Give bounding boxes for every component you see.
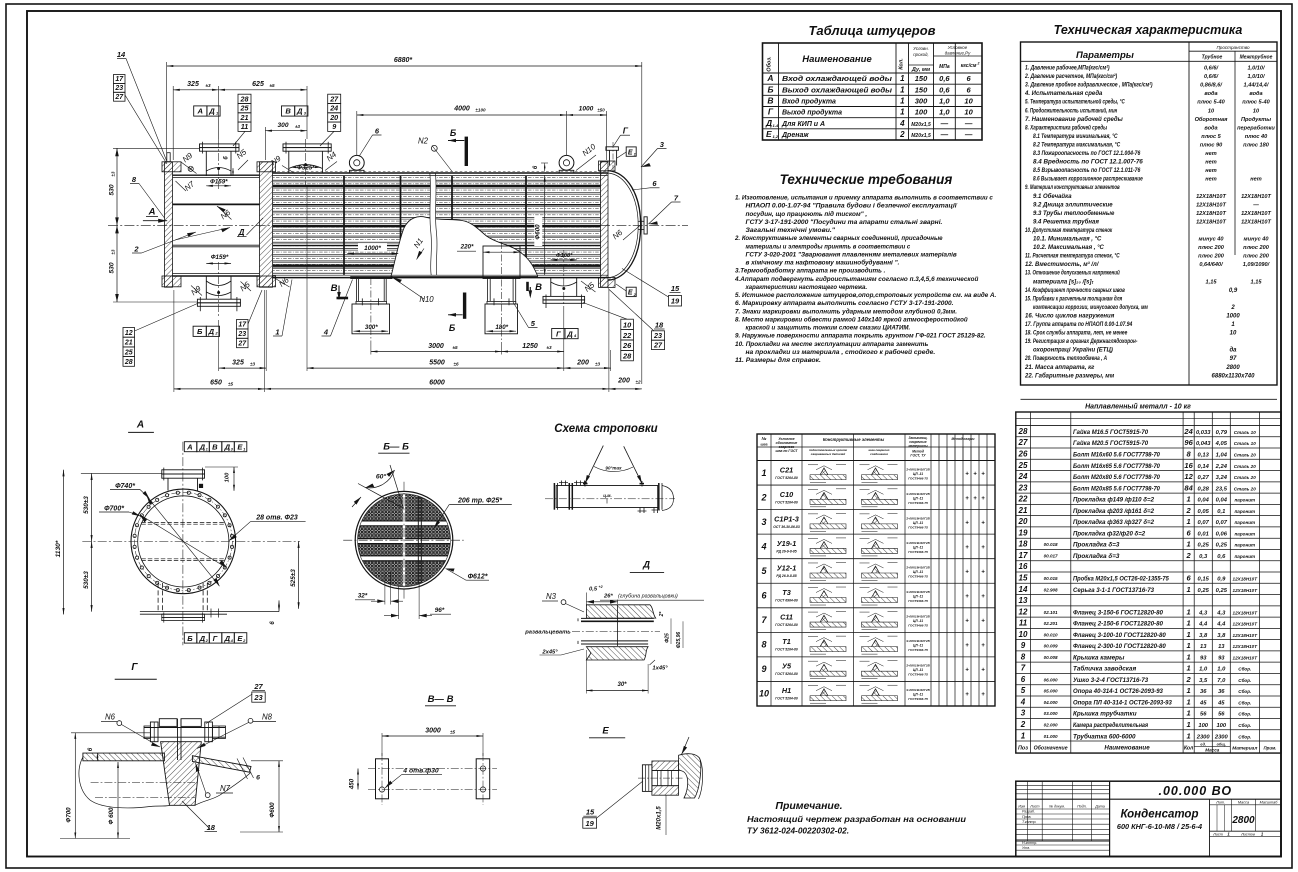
svg-text:Пробка М20х1,5 ОСТ26-02-1355-7: Пробка М20х1,5 ОСТ26-02-1355-75: [1073, 574, 1169, 582]
svg-text:+: +: [965, 471, 969, 477]
svg-text:Метод сварки: Метод сварки: [952, 437, 975, 441]
svg-text:00.018: 00.018: [1044, 542, 1058, 547]
svg-text:23: 23: [114, 85, 123, 92]
svg-text:Масса: Масса: [1205, 748, 1220, 753]
svg-text:325: 325: [187, 81, 199, 88]
svg-text:1: 1: [1021, 731, 1026, 740]
svg-text:0,9: 0,9: [1217, 576, 1226, 582]
Ф159 dim under nozzle A: [206, 185, 231, 187]
svg-text:0,07: 0,07: [1198, 520, 1210, 526]
svg-text:соединения: соединения: [870, 452, 888, 456]
svg-text:+: +: [965, 496, 969, 502]
svg-text:В: В: [212, 443, 218, 452]
svg-text:+: +: [981, 619, 985, 625]
svg-text:Обозначение: Обозначение: [1034, 745, 1068, 752]
svg-text:плюс 200: плюс 200: [1243, 254, 1270, 260]
svg-text:15: 15: [1019, 573, 1028, 582]
svg-text:паронит: паронит: [1234, 498, 1255, 503]
svg-text:1. Изготовление, испытания и п: 1. Изготовление, испытания и приемку апп…: [735, 195, 993, 202]
svg-text:Поз: Поз: [1018, 746, 1028, 752]
svg-text:Конструктивные элементы: Конструктивные элементы: [823, 437, 885, 442]
svg-text:Гайка М16.5 ГОСТ5915-70: Гайка М16.5 ГОСТ5915-70: [1073, 428, 1149, 436]
svg-text:ЦЛ -11: ЦЛ -11: [913, 496, 923, 500]
svg-text:Н.контр.: Н.контр.: [1022, 841, 1037, 845]
svg-text:9: 9: [1021, 641, 1026, 650]
ref box В Д3: [282, 106, 295, 116]
svg-text:шва по ГОСТ: шва по ГОСТ: [776, 449, 799, 453]
svg-text:1: 1: [1187, 630, 1191, 639]
Г: left shell plate (hatched): [83, 753, 164, 761]
svg-text:Болт М20х85 5.6 ГОСТ7798-70: Болт М20х85 5.6 ГОСТ7798-70: [1073, 485, 1160, 492]
svg-text:18: 18: [207, 823, 216, 832]
svg-text:Сбор.: Сбор.: [1238, 699, 1251, 705]
svg-text:1,15: 1,15: [1206, 279, 1218, 285]
svg-text:23: 23: [237, 331, 246, 338]
svg-text:+: +: [973, 471, 977, 477]
svg-text:23: 23: [653, 331, 662, 340]
small weld symbol circle: [188, 166, 193, 171]
svg-text:±3: ±3: [295, 124, 300, 129]
svg-text:1000*: 1000*: [364, 245, 381, 252]
svg-text:4 отв.ф30: 4 отв.ф30: [402, 768, 439, 775]
svg-text:26: 26: [622, 341, 632, 350]
svg-text:Условное: Условное: [948, 45, 968, 50]
svg-text:11: 11: [241, 122, 248, 131]
svg-text:+: +: [981, 520, 985, 526]
svg-text:Ф600: Ф600: [269, 802, 276, 818]
svg-text:12Х18Н10Т: 12Х18Н10Т: [1241, 219, 1271, 225]
svg-text:Пров.: Пров.: [1022, 815, 1031, 819]
svg-text:10: 10: [759, 689, 769, 699]
svg-text:23: 23: [1018, 483, 1028, 492]
svg-text:проход,: проход,: [913, 52, 928, 57]
svg-text:13: 13: [1218, 644, 1225, 650]
svg-text:4,3: 4,3: [1216, 610, 1226, 616]
svg-text:2,24: 2,24: [1215, 464, 1228, 470]
svg-text:1: 1: [1187, 720, 1191, 729]
svg-text:компенсации коррозии, минусово: компенсации коррозии, минусового допуска…: [1033, 305, 1148, 311]
svg-text:15: 15: [671, 284, 680, 293]
svg-text:2: 2: [1186, 675, 1192, 684]
distribution chamber (камера): [173, 174, 260, 176]
svg-text:в хімічному та нафтовому машин: в хімічному та нафтовому машинобудуванні…: [746, 259, 900, 267]
svg-text:12Х18Н10Т: 12Х18Н10Т: [1233, 576, 1259, 581]
break band (разрыв): [430, 173, 437, 275]
svg-text:ГОСТ9466-75: ГОСТ9466-75: [908, 501, 928, 505]
svg-text:4. Испытательная среда: 4. Испытательная среда: [1024, 91, 1103, 97]
svg-text:Масса: Масса: [1238, 801, 1249, 805]
svg-text:10.1. Минимальная , °С: 10.1. Минимальная , °С: [1033, 237, 1102, 243]
svg-text:ц.м.: ц.м.: [603, 493, 612, 498]
svg-text:материалы и электроды принять: материалы и электроды принять в соответс…: [746, 242, 911, 250]
svg-text:10: 10: [1253, 108, 1260, 114]
labels Е2 / 15 / 19 / 18 / 23 / 27 / 10 / 22 / 26 / 28 right bottom: [626, 287, 636, 296]
svg-text:А: А: [148, 207, 156, 218]
svg-text:ГОСТ 5264-80: ГОСТ 5264-80: [775, 476, 798, 480]
svg-text:Д: Д: [199, 634, 206, 643]
svg-text:плюс 180: плюс 180: [1243, 142, 1270, 148]
svg-text:17: 17: [238, 322, 247, 329]
main vessel centerline: [108, 224, 688, 226]
svg-text:ЦЛ -11: ЦЛ -11: [913, 619, 923, 623]
support 5 (опора, shown in cutaway): [483, 246, 520, 279]
svg-text:Сталь 20: Сталь 20: [1234, 464, 1256, 469]
welding joints table: [757, 434, 995, 706]
svg-text:±5: ±5: [450, 729, 456, 734]
svg-text:Сбор.: Сбор.: [1238, 666, 1251, 672]
svg-text:+: +: [981, 496, 985, 502]
view A top-left extension line: [81, 472, 162, 474]
svg-text:12Х18Н10Т: 12Х18Н10Т: [1233, 655, 1259, 660]
svg-text:02.201: 02.201: [1044, 621, 1058, 626]
svg-text:Э-08Х19Н10Г2Б: Э-08Х19Н10Г2Б: [906, 615, 930, 619]
svg-text:Б: Б: [197, 327, 203, 336]
view A support + bottom flange: [157, 583, 159, 612]
right tube sheet / flange: [601, 162, 609, 287]
svg-text:6: 6: [1021, 675, 1026, 684]
svg-text:0,033: 0,033: [1196, 430, 1211, 436]
tube bundle field: [273, 177, 601, 274]
svg-text:У19-1: У19-1: [777, 539, 797, 548]
svg-text:М20х1,5: М20х1,5: [911, 133, 931, 139]
pass partition rows (thick tube lanes): [273, 185, 601, 187]
svg-text:00.010: 00.010: [1044, 632, 1058, 637]
svg-text:14: 14: [1019, 585, 1028, 594]
svg-text:3000: 3000: [428, 343, 444, 350]
svg-text:ЦЛ -11: ЦЛ -11: [913, 668, 923, 672]
svg-text:12Х18Н10Т: 12Х18Н10Т: [1233, 622, 1259, 627]
svg-text:Сталь 10: Сталь 10: [1234, 430, 1256, 435]
dim 325 / 625 top: [173, 89, 218, 91]
svg-text:8.4 Вредность по ГОСТ: 8.4 Вредность по ГОСТ 12.1.007-76: [1033, 160, 1143, 166]
svg-text:С10: С10: [780, 490, 793, 499]
head centre nozzle (поз.7 drain): [639, 220, 645, 222]
svg-text:Д: Д: [642, 560, 650, 571]
svg-text:28 отв. Ф23: 28 отв. Ф23: [255, 515, 298, 522]
svg-text:Э-08Х19Н10Г2Б: Э-08Х19Н10Г2Б: [906, 492, 930, 496]
svg-text:Кол: Кол: [1184, 746, 1194, 752]
svg-text:1250: 1250: [522, 343, 538, 350]
svg-text:N8: N8: [262, 713, 273, 722]
svg-text:шва: шва: [761, 443, 768, 447]
dim 4000 / 1000: [357, 114, 567, 116]
svg-text:10: 10: [964, 108, 973, 117]
svg-text:10: 10: [1019, 630, 1028, 639]
svg-text:Ду, мм: Ду, мм: [911, 67, 930, 73]
tech table grid: [1021, 42, 1278, 385]
svg-text:паронит: паронит: [1234, 554, 1255, 559]
svg-text:А: А: [766, 73, 773, 83]
svg-text:00.009: 00.009: [1044, 644, 1058, 649]
svg-text:свариваемых деталей: свариваемых деталей: [811, 452, 846, 456]
svg-text:9: 9: [332, 122, 336, 131]
svg-text:ОСТ 36-30-86-83: ОСТ 36-30-86-83: [773, 525, 800, 529]
svg-text:Болт М16х65 5.6 ГОСТ7798-70: Болт М16х65 5.6 ГОСТ7798-70: [1073, 463, 1160, 470]
svg-text:ГОСТ, ТУ: ГОСТ, ТУ: [910, 454, 926, 458]
svg-text:12: 12: [125, 330, 133, 337]
svg-text:0,01: 0,01: [1198, 531, 1209, 537]
svg-text:02.000: 02.000: [1044, 722, 1058, 727]
view A diameter diagonals: [147, 497, 220, 587]
svg-text:6. Продолжительность испытаний: 6. Продолжительность испытаний, мин: [1025, 107, 1117, 114]
svg-text:4000: 4000: [453, 106, 470, 113]
svg-text:19. Регистрация в органах Держ: 19. Регистрация в органах Держнаглядохор…: [1025, 339, 1137, 345]
lit/mass/scale cells: [1209, 799, 1211, 856]
svg-text:0,25: 0,25: [1198, 543, 1210, 549]
svg-text:Ф700*: Ф700*: [104, 506, 124, 513]
svg-text:6: 6: [256, 775, 260, 782]
svg-text:56: 56: [1218, 712, 1225, 718]
svg-text:Трубное: Трубное: [1202, 54, 1223, 61]
svg-text:Т1: Т1: [782, 637, 791, 646]
svg-text:Ф 600: Ф 600: [108, 807, 115, 824]
svg-text:С11: С11: [780, 613, 793, 622]
svg-text:23,5: 23,5: [1215, 486, 1228, 492]
svg-text:ГОСТ 5264-80: ГОСТ 5264-80: [775, 500, 798, 504]
svg-text:12: 12: [1184, 472, 1193, 481]
svg-text:Сталь 20: Сталь 20: [1234, 453, 1256, 458]
svg-text:0,25: 0,25: [1216, 543, 1228, 549]
svg-text:Б: Б: [187, 634, 193, 643]
svg-text:ЦЛ -11: ЦЛ -11: [913, 570, 923, 574]
title block (основная надпись): [1016, 781, 1281, 856]
svg-text:Наименование: Наименование: [1104, 745, 1150, 752]
svg-text:220*: 220*: [460, 243, 474, 250]
svg-text:0,6: 0,6: [1217, 554, 1226, 560]
svg-text:15: 15: [586, 808, 595, 817]
svg-text:Прокладка ф363 /ф327 δ=2: Прокладка ф363 /ф327 δ=2: [1073, 518, 1154, 526]
svg-text:6880*: 6880*: [394, 57, 413, 64]
svg-text:1130*: 1130*: [55, 540, 62, 557]
svg-text:100: 100: [1216, 723, 1226, 729]
svg-text:+: +: [965, 692, 969, 698]
svg-text:1х45°: 1х45°: [652, 665, 668, 671]
svg-text:МПа: МПа: [939, 64, 950, 70]
svg-text:1: 1: [1187, 664, 1191, 673]
svg-text:материала [s]₂₀ /[s]ₜ: материала [s]₂₀ /[s]ₜ: [1033, 279, 1095, 285]
svg-text:Для КИП и А: Для КИП и А: [781, 121, 825, 128]
svg-text:1: 1: [1187, 731, 1191, 740]
svg-text:ГОСТ9466-75: ГОСТ9466-75: [908, 525, 928, 529]
svg-text:8. Место маркировки обвести ра: 8. Место маркировки обвести рамкой 140х1…: [735, 315, 968, 323]
svg-text:Сталь 10: Сталь 10: [1234, 441, 1256, 446]
svg-text:вода: вода: [1249, 91, 1262, 97]
svg-text:1: 1: [1187, 607, 1191, 616]
svg-text:С21: С21: [780, 465, 793, 474]
svg-text:10: 10: [964, 97, 973, 106]
svg-text:530: 530: [109, 184, 116, 195]
svg-text:Э-08Х19Н10Г2Б: Э-08Х19Н10Г2Б: [906, 516, 930, 520]
svg-text:12Х18Н10Т: 12Х18Н10Т: [1196, 202, 1226, 208]
view A ref boxes top: [184, 442, 197, 452]
svg-text:1: 1: [1187, 697, 1191, 706]
svg-text:93: 93: [1200, 655, 1207, 661]
svg-text:Е: Е: [766, 129, 772, 139]
svg-text:14: 14: [117, 50, 126, 59]
svg-text:6. Маркировку аппарата выполни: 6. Маркировку аппарата выполнить согласн…: [735, 300, 953, 307]
svg-text:2: 2: [1230, 305, 1235, 311]
view A flange circles: [131, 489, 236, 594]
svg-text:ГОСТ 5264-80: ГОСТ 5264-80: [775, 623, 798, 627]
svg-text:06.000: 06.000: [1044, 677, 1058, 682]
svg-text:2300: 2300: [1214, 734, 1229, 740]
svg-text:26: 26: [1018, 450, 1028, 459]
svg-text:ЦЛ -11: ЦЛ -11: [913, 693, 923, 697]
svg-text:Дренаж: Дренаж: [781, 132, 809, 139]
svg-text:Ушко 3-2-4 ГОСТ13716-73: Ушко 3-2-4 ГОСТ13716-73: [1073, 677, 1149, 684]
svg-text:300*: 300*: [365, 324, 378, 331]
svg-text:16: 16: [1184, 461, 1193, 470]
svg-text:±3: ±3: [546, 345, 552, 350]
svg-text:9: 9: [761, 664, 766, 674]
pos stack 27/24/20/9: [328, 94, 341, 103]
svg-text:Э-08Х19Н10Г2Б: Э-08Х19Н10Г2Б: [906, 541, 930, 545]
svg-text:2х45°: 2х45°: [541, 649, 558, 655]
svg-text:25: 25: [124, 349, 133, 356]
svg-text:паронит: паронит: [1234, 509, 1255, 514]
svg-text:Техническая характеристика: Техническая характеристика: [1054, 23, 1243, 37]
svg-text:0,27: 0,27: [1198, 475, 1210, 481]
svg-text:развальцевать: развальцевать: [524, 630, 571, 636]
svg-text:04.000: 04.000: [1044, 700, 1058, 705]
svg-text:206 тр. Ф25*: 206 тр. Ф25*: [457, 498, 502, 505]
svg-text:0,13: 0,13: [1198, 453, 1210, 459]
svg-text:Загальні технічні умови.": Загальні технічні умови.": [746, 226, 836, 234]
svg-text:±100: ±100: [475, 108, 486, 113]
dim 6880*: [167, 65, 642, 67]
svg-text:2800: 2800: [1225, 365, 1240, 371]
svg-text:27: 27: [253, 682, 263, 691]
svg-text:9.3 Трубы теплообменные: 9.3 Трубы теплообменные: [1033, 210, 1115, 217]
sling vessel sketch: [556, 486, 658, 508]
svg-text:±5: ±5: [228, 381, 234, 386]
svg-text:плюс 200: плюс 200: [1198, 254, 1225, 260]
svg-text:2: 2: [1020, 720, 1026, 729]
svg-text:21: 21: [240, 113, 249, 122]
svg-text:5: 5: [1021, 686, 1026, 695]
svg-text:+: +: [965, 520, 969, 526]
nozzle Б (Ф159) bottom of chamber: [205, 276, 207, 299]
svg-text:03.000: 03.000: [1044, 711, 1058, 716]
svg-text:2. Конструктивные элементы сва: 2. Конструктивные элементы сварных соеди…: [734, 234, 943, 242]
svg-text:1: 1: [1187, 495, 1191, 504]
svg-text:00.008: 00.008: [1044, 655, 1058, 660]
svg-text:нет: нет: [1250, 177, 1261, 183]
svg-text:16: 16: [1019, 562, 1028, 571]
svg-text:12. Вместимость, м³ /л/: 12. Вместимость, м³ /л/: [1025, 261, 1100, 268]
svg-text:В: В: [535, 282, 542, 293]
svg-text:плюс 90: плюс 90: [1200, 142, 1223, 148]
support 4 (опора): [351, 277, 392, 279]
svg-text:Д: Д: [296, 107, 303, 116]
svg-text:ГОСТ9466-75: ГОСТ9466-75: [908, 673, 928, 677]
Г: right inclined plate (hatched): [192, 756, 251, 773]
svg-text:Опора ПЛ 40-314-1 ОСТ26-2093-: Опора ПЛ 40-314-1 ОСТ26-2093-93: [1073, 699, 1172, 706]
svg-text:1,44/14,4/: 1,44/14,4/: [1244, 83, 1270, 89]
svg-text:0,15: 0,15: [1198, 576, 1210, 582]
svg-text:ГОСТ 5264-80: ГОСТ 5264-80: [775, 672, 798, 676]
svg-text:Утв.: Утв.: [1022, 846, 1030, 850]
svg-text:плюс 5-40: плюс 5-40: [1197, 100, 1225, 106]
svg-text:13: 13: [1019, 596, 1028, 605]
svg-text:ГСТУ 3-17-191-2000 "Посудини т: ГСТУ 3-17-191-2000 "Посудини та апарати …: [746, 218, 943, 226]
svg-text:Опора 40-314-1 ОСТ26-2093-93: Опора 40-314-1 ОСТ26-2093-93: [1073, 688, 1163, 695]
svg-text:ГОСТ9466-75: ГОСТ9466-75: [908, 574, 928, 578]
svg-text:28: 28: [240, 94, 249, 103]
svg-text:4: 4: [760, 541, 766, 551]
svg-text:11. Размеры для справок.: 11. Размеры для справок.: [735, 356, 821, 364]
svg-text:16. Число циклов нагружения: 16. Число циклов нагружения: [1025, 313, 1115, 319]
svg-text:36: 36: [1218, 689, 1225, 695]
svg-text:—: —: [964, 130, 973, 139]
Ф600 dim on shell: [544, 175, 546, 275]
nozzle A (Ф159) top of chamber: [205, 151, 207, 176]
В-В dim 3000: [382, 735, 483, 737]
svg-text:N6: N6: [105, 713, 116, 722]
svg-text:Наплавленный металл - 10 кг: Наплавленный металл - 10 кг: [1085, 403, 1191, 411]
svg-text:+: +: [965, 643, 969, 649]
svg-text:1. Давление рабочее,МПа(кгс/см: 1. Давление рабочее,МПа(кгс/см²): [1025, 65, 1110, 72]
svg-text:200: 200: [617, 377, 630, 384]
svg-text:Г: Г: [623, 125, 629, 135]
svg-text:нет: нет: [1205, 168, 1216, 174]
svg-text:8: 8: [1021, 652, 1026, 661]
svg-text:9. Наружные поверхности аппара: 9. Наружные поверхности аппарата покрыть…: [735, 333, 986, 340]
svg-text:0,79: 0,79: [1216, 430, 1228, 436]
svg-text:ЦЛ -11: ЦЛ -11: [913, 545, 923, 549]
svg-text:0,043: 0,043: [1196, 441, 1211, 447]
ref box А Д1: [194, 106, 207, 116]
svg-text:Н1: Н1: [782, 686, 791, 695]
svg-text:93: 93: [1218, 655, 1225, 661]
svg-text:Трубчатка 600-6000: Трубчатка 600-6000: [1073, 732, 1136, 740]
dim 6 (view A bottom): [278, 600, 280, 611]
view A centerlines: [182, 442, 184, 646]
svg-text:6: 6: [87, 747, 94, 751]
svg-text:4: 4: [899, 119, 905, 128]
svg-text:Камера распределительная: Камера распределительная: [1073, 721, 1148, 729]
svg-text:19: 19: [671, 297, 680, 306]
svg-text:вода: вода: [1204, 91, 1217, 97]
svg-text:Болт М20х80 5.6 ГОСТ7798-70: Болт М20х80 5.6 ГОСТ7798-70: [1073, 474, 1160, 481]
svg-text:17: 17: [115, 76, 124, 83]
svg-text:21: 21: [124, 340, 133, 347]
svg-text:ТУ 3612-024-00220302-02.: ТУ 3612-024-00220302-02.: [747, 826, 849, 836]
svg-text:давление,Ру: давление,Ру: [945, 51, 971, 56]
svg-text:Серьга 3-1-1 ГОСТ13716-73: Серьга 3-1-1 ГОСТ13716-73: [1073, 587, 1154, 594]
svg-text:0,64/640/: 0,64/640/: [1199, 262, 1224, 268]
svg-text:минус 40: минус 40: [1244, 237, 1270, 243]
svg-text:±2: ±2: [635, 379, 641, 384]
svg-text:3: 3: [761, 517, 766, 527]
svg-text:0,6/6/: 0,6/6/: [1204, 74, 1219, 80]
svg-text:—: —: [940, 130, 949, 139]
svg-text:10. Допустимая температура сте: 10. Допустимая температура стенок: [1025, 228, 1113, 234]
svg-text:7. Наименование рабочей среды: 7. Наименование рабочей среды: [1025, 116, 1124, 123]
Е: plug detail: [642, 765, 652, 792]
svg-text:ед.: ед.: [1200, 742, 1206, 746]
svg-text:плюс 5: плюс 5: [1201, 134, 1221, 140]
svg-text:450: 450: [349, 778, 356, 790]
svg-text:М20х1,5: М20х1,5: [911, 122, 931, 128]
svg-text:10. Прокладки на месте эксплу: 10. Прокладки на месте эксплуатации аппа…: [735, 340, 928, 348]
svg-text:1,2: 1,2: [773, 134, 779, 139]
svg-text:7. Знаки маркировки выполнить: 7. Знаки маркировки выполнить ударным ме…: [735, 307, 957, 315]
svg-text:Выход продукта: Выход продукта: [782, 109, 842, 117]
svg-text:00.017: 00.017: [1044, 553, 1058, 558]
svg-text:9.1 Обечайка: 9.1 Обечайка: [1033, 193, 1072, 200]
svg-text:25: 25: [1018, 461, 1028, 470]
